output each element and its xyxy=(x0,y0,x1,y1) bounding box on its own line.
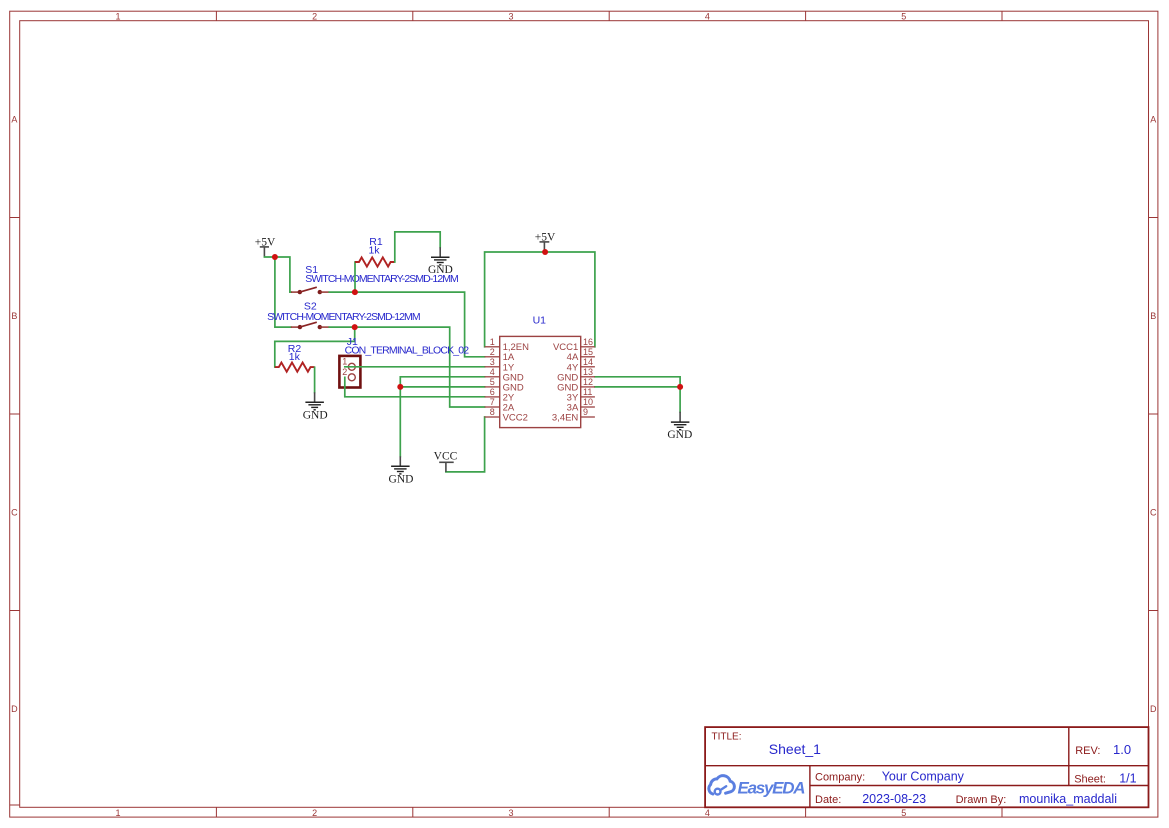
svg-text:D: D xyxy=(1150,704,1157,714)
wire +5V to S1 xyxy=(264,257,290,292)
U1 pin 7 (2A) xyxy=(485,397,515,413)
svg-text:5: 5 xyxy=(901,11,906,21)
junction +5V U1 node xyxy=(542,249,548,255)
svg-text:2: 2 xyxy=(312,808,317,818)
svg-text:16: 16 xyxy=(583,337,593,347)
svg-text:GND: GND xyxy=(667,429,692,441)
ground GND (top, right of R1) xyxy=(428,247,453,276)
svg-text:VCC: VCC xyxy=(434,450,458,462)
svg-text:B: B xyxy=(1150,311,1156,321)
svg-text:8: 8 xyxy=(490,407,495,417)
svg-text:6: 6 xyxy=(490,387,495,397)
wire U1 pin 5 to GND node xyxy=(400,386,484,388)
IC U1 body xyxy=(500,336,581,427)
svg-text:A: A xyxy=(11,115,17,125)
power symbol +5V (above U1) xyxy=(535,232,556,252)
svg-text:4: 4 xyxy=(705,808,710,818)
wire U1 pin 8 to VCC xyxy=(446,417,485,472)
svg-text:C: C xyxy=(11,508,18,518)
svg-text:GND: GND xyxy=(428,264,453,276)
U1 pin 3 (1Y) xyxy=(485,357,515,373)
junction GND node pins 12,13 xyxy=(677,384,683,390)
svg-text:3: 3 xyxy=(508,11,513,21)
svg-text:mounika_maddali: mounika_maddali xyxy=(1019,792,1117,806)
svg-text:5: 5 xyxy=(901,808,906,818)
svg-text:1: 1 xyxy=(490,337,495,347)
U1 pin 8 (VCC2) xyxy=(485,407,528,423)
U1 pin 12 (GND) xyxy=(557,377,595,393)
junction GND node pins 4,5 xyxy=(397,384,403,390)
svg-text:2: 2 xyxy=(312,11,317,21)
svg-text:2023-08-23: 2023-08-23 xyxy=(862,792,926,806)
wire S2 node to R2 xyxy=(275,327,355,367)
svg-text:C: C xyxy=(1150,508,1157,518)
svg-text:13: 13 xyxy=(583,367,593,377)
svg-text:EasyEDA: EasyEDA xyxy=(738,778,806,797)
svg-text:4: 4 xyxy=(705,11,710,21)
wire +5V to S2 xyxy=(274,257,276,327)
svg-text:SWITCH-MOMENTARY-2SMD-12MM: SWITCH-MOMENTARY-2SMD-12MM xyxy=(267,311,421,323)
svg-text:1k: 1k xyxy=(368,245,380,257)
svg-text:1: 1 xyxy=(115,808,120,818)
resistor R2 xyxy=(275,363,315,372)
U1 pin 10 (3A) xyxy=(567,397,595,413)
U1 pin 4 (GND) xyxy=(485,367,524,383)
svg-text:TITLE:: TITLE: xyxy=(712,732,742,743)
wire R1 to S1 node xyxy=(354,262,356,292)
switch S1 xyxy=(290,287,329,294)
wire S1 to U1 pin 2 xyxy=(329,292,484,357)
svg-text:1: 1 xyxy=(115,11,120,21)
U1 pin 2 (1A) xyxy=(485,347,515,363)
U1 pin 15 (4A) xyxy=(567,347,595,363)
wire R1 to GND xyxy=(395,232,440,262)
U1 pin 5 (GND) xyxy=(485,377,524,393)
svg-text:4: 4 xyxy=(490,367,495,377)
svg-text:B: B xyxy=(11,311,17,321)
svg-text:Drawn By:: Drawn By: xyxy=(956,794,1007,806)
wire GND node down to ground xyxy=(679,387,681,412)
ground GND (right of U1) xyxy=(667,412,692,441)
wire U1 pin 1 to +5V to pin 16 xyxy=(485,252,595,347)
svg-text:GND: GND xyxy=(303,410,328,422)
svg-text:14: 14 xyxy=(583,357,593,367)
wire J1 pin 1 to U1 pin 3 xyxy=(345,366,485,368)
junction S2-R2 node xyxy=(352,324,358,330)
ground GND (below R2) xyxy=(303,392,328,421)
connector J1 CON_TERMINAL_BLOCK_02 xyxy=(339,356,360,388)
svg-text:Sheet_1: Sheet_1 xyxy=(769,741,821,757)
svg-text:1: 1 xyxy=(342,356,347,366)
power symbol VCC xyxy=(434,450,458,472)
svg-text:Your Company: Your Company xyxy=(882,770,965,784)
svg-text:1.0: 1.0 xyxy=(1113,742,1131,757)
junction +5V node xyxy=(272,254,278,260)
svg-text:2: 2 xyxy=(490,347,495,357)
svg-text:5: 5 xyxy=(490,377,495,387)
svg-text:U1: U1 xyxy=(533,315,547,327)
svg-text:2: 2 xyxy=(342,367,347,377)
wire J1 pin 2 to U1 pin 6 xyxy=(345,377,485,397)
power symbol +5V (left) xyxy=(255,237,276,257)
svg-text:3: 3 xyxy=(490,357,495,367)
svg-text:D: D xyxy=(11,704,18,714)
U1 pin 6 (2Y) xyxy=(485,387,515,403)
svg-text:7: 7 xyxy=(490,397,495,407)
svg-text:Sheet:: Sheet: xyxy=(1074,774,1106,786)
svg-text:3,4EN: 3,4EN xyxy=(552,412,579,423)
U1 pin 9 (3,4EN) xyxy=(552,407,595,423)
svg-text:A: A xyxy=(1150,115,1156,125)
svg-text:10: 10 xyxy=(583,397,593,407)
switch S2 xyxy=(275,322,329,329)
svg-text:CON_TERMINAL_BLOCK_02: CON_TERMINAL_BLOCK_02 xyxy=(345,345,470,357)
svg-text:11: 11 xyxy=(583,387,592,397)
title block xyxy=(705,727,1148,807)
wire U1 pin 13 to GND xyxy=(595,377,680,387)
U1 pin 1 (1,2EN) xyxy=(485,337,530,353)
wire S2 to U1 pin 7 xyxy=(329,327,484,407)
svg-text:Company:: Company: xyxy=(815,772,865,784)
junction S1-R1 node xyxy=(352,289,358,295)
wire U1 pin 12 to GND node xyxy=(595,386,680,388)
U1 pin 14 (4Y) xyxy=(567,357,595,373)
svg-text:15: 15 xyxy=(583,347,593,357)
svg-text:9: 9 xyxy=(583,407,588,417)
wire U1 pin 4 to GND xyxy=(400,377,484,457)
svg-text:12: 12 xyxy=(583,377,593,387)
U1 pin 16 (VCC1) xyxy=(553,337,595,353)
svg-text:Date:: Date: xyxy=(815,794,841,806)
svg-text:GND: GND xyxy=(389,474,414,486)
svg-text:1k: 1k xyxy=(289,351,301,363)
EasyEDA logo xyxy=(709,776,806,798)
resistor R1 xyxy=(355,257,395,266)
wire R2 to GND xyxy=(314,367,316,392)
ground GND (below U1 left) xyxy=(389,456,414,485)
svg-text:3: 3 xyxy=(508,808,513,818)
U1 pin 11 (3Y) xyxy=(567,387,595,403)
svg-text:REV:: REV: xyxy=(1075,745,1100,757)
svg-text:1/1: 1/1 xyxy=(1119,772,1136,786)
svg-text:VCC2: VCC2 xyxy=(503,412,528,423)
U1 pin 13 (GND) xyxy=(557,367,595,383)
